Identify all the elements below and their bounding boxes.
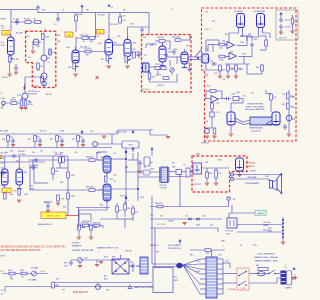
svg-text:HIGH 50: HIGH 50 — [157, 37, 164, 39]
svg-text:OUTPUT: OUTPUT — [193, 184, 202, 186]
svg-text:FX RETURN: FX RETURN — [254, 11, 266, 13]
svg-text:C4: C4 — [62, 10, 64, 12]
svg-text:HEATERS: HEATERS — [72, 244, 82, 247]
svg-text:22n: 22n — [251, 93, 254, 95]
svg-text:TR8: TR8 — [292, 119, 295, 121]
svg-text:JK5: JK5 — [233, 199, 236, 201]
svg-text:C14: C14 — [132, 49, 135, 51]
svg-text:+15V: +15V — [40, 271, 45, 273]
svg-text:HT+ 320V: HT+ 320V — [157, 224, 166, 226]
svg-text:HT-: HT- — [1, 271, 5, 273]
svg-text:R84: R84 — [60, 182, 63, 184]
svg-text:LOUDSPEAKER: LOUDSPEAKER — [245, 182, 260, 185]
svg-text:C18 22n: C18 22n — [155, 75, 162, 77]
svg-text:2M2: 2M2 — [57, 41, 60, 43]
svg-text:V6: V6 — [114, 181, 116, 183]
svg-text:R35: R35 — [254, 39, 257, 41]
svg-text:EXTERNAL: EXTERNAL — [246, 162, 256, 165]
svg-text:VIRTUAL CENTER TAP: VIRTUAL CENTER TAP — [72, 249, 94, 252]
svg-text:R105 15K: R105 15K — [81, 223, 89, 225]
svg-text:R8 10K: R8 10K — [46, 94, 53, 96]
svg-text:TR5: TR5 — [37, 70, 41, 72]
svg-text:NOTE:: NOTE: — [1, 256, 7, 258]
svg-text:TX2 8R: TX2 8R — [160, 188, 167, 190]
svg-text:22n: 22n — [135, 212, 138, 214]
svg-text:RLY1 12V: RLY1 12V — [226, 231, 234, 233]
svg-text:FX SEND: FX SEND — [234, 11, 243, 13]
svg-text:DPDT: DPDT — [226, 233, 231, 235]
svg-text:R92: R92 — [100, 205, 103, 207]
svg-text:R10: R10 — [57, 35, 60, 37]
svg-text:47u: 47u — [32, 152, 35, 154]
svg-text:R26 250K: R26 250K — [172, 37, 181, 39]
svg-text:4K7: 4K7 — [274, 97, 277, 99]
svg-text:C6: C6 — [44, 29, 46, 31]
svg-text:BIAS ADJUST: BIAS ADJUST — [38, 223, 53, 226]
svg-text:R110: R110 — [8, 270, 12, 272]
svg-text:R106 15K: R106 15K — [93, 223, 101, 225]
svg-text:R50: R50 — [207, 86, 210, 88]
svg-text:100u: 100u — [268, 228, 272, 230]
svg-text:C32 47u: C32 47u — [285, 27, 292, 29]
svg-text:1n: 1n — [152, 44, 154, 46]
svg-text:IC2b: IC2b — [236, 92, 240, 94]
svg-text:C21 1u: C21 1u — [205, 29, 211, 31]
svg-text:R83: R83 — [60, 153, 63, 155]
svg-text:LOW 50: LOW 50 — [157, 85, 164, 87]
svg-text:C17: C17 — [144, 55, 147, 57]
svg-text:PSU: PSU — [129, 145, 134, 147]
svg-text:R100: R100 — [196, 225, 200, 227]
svg-text:C26: C26 — [214, 73, 217, 75]
svg-text:HEATER SUPPLY 6.3V: HEATER SUPPLY 6.3V — [97, 247, 119, 250]
svg-text:HT4 285V: HT4 285V — [0, 131, 9, 133]
svg-text:B TOne: B TOne — [143, 89, 151, 91]
svg-text:V4a: V4a — [1, 168, 4, 170]
svg-text:R71: R71 — [28, 139, 31, 141]
svg-text:BF245: BF245 — [28, 104, 33, 106]
svg-text:R21: R21 — [123, 10, 126, 12]
svg-text:R112: R112 — [104, 257, 108, 259]
svg-text:R11 100K: R11 100K — [80, 35, 89, 37]
svg-text:D12: D12 — [185, 216, 188, 218]
svg-text:V5: V5 — [114, 153, 116, 155]
svg-text:SET HEATER BALANCE USING TR2: SET HEATER BALANCE USING TR2 — [1, 249, 42, 252]
svg-text:47u: 47u — [75, 152, 78, 154]
svg-text:C48: C48 — [125, 167, 128, 169]
svg-text:R32: R32 — [248, 34, 251, 36]
svg-text:R17: R17 — [101, 59, 104, 61]
svg-text:C28: C28 — [222, 79, 225, 81]
svg-text:R20 220K: R20 220K — [110, 24, 119, 26]
svg-text:AC2: AC2 — [104, 278, 108, 281]
svg-text:C20: C20 — [205, 49, 208, 51]
svg-text:E2: E2 — [99, 32, 101, 34]
svg-text:C8 22u: C8 22u — [2, 77, 8, 79]
svg-text:RUN ADJUST: RUN ADJUST — [73, 291, 89, 294]
svg-text:TR1 BIAS: TR1 BIAS — [28, 279, 37, 282]
svg-text:6V3: 6V3 — [56, 279, 59, 281]
svg-text:R14: R14 — [68, 67, 71, 69]
svg-text:long decay: long decay — [251, 131, 260, 133]
svg-text:C55: C55 — [217, 112, 220, 114]
svg-text:R60: R60 — [292, 97, 295, 99]
svg-text:FS1: FS1 — [256, 265, 259, 267]
svg-text:C44 22n: C44 22n — [0, 153, 7, 155]
svg-text:C45: C45 — [1, 163, 4, 165]
svg-text:C71: C71 — [183, 165, 186, 167]
svg-text:115V OPERATION: 115V OPERATION — [257, 253, 275, 256]
svg-text:IC1: IC1 — [240, 69, 243, 71]
svg-text:C62: C62 — [210, 225, 213, 227]
svg-text:TR4: TR4 — [37, 46, 41, 48]
svg-text:6.3V 3A: 6.3V 3A — [125, 250, 132, 253]
svg-text:C3: C3 — [54, 24, 56, 26]
svg-text:JK3: JK3 — [205, 162, 208, 164]
svg-text:C42 47u: C42 47u — [40, 131, 46, 133]
svg-text:C15: C15 — [143, 37, 146, 39]
svg-text:C16: C16 — [174, 49, 177, 51]
svg-text:22n: 22n — [110, 58, 113, 60]
svg-text:HT1: HT1 — [86, 10, 89, 12]
svg-text:R91: R91 — [94, 227, 97, 229]
svg-text:8 OHM: 8 OHM — [250, 171, 256, 173]
svg-text:R44: R44 — [256, 67, 259, 69]
svg-text:47u: 47u — [119, 210, 122, 212]
svg-text:BR1: BR1 — [112, 257, 116, 259]
svg-text:C50: C50 — [1, 176, 4, 178]
svg-text:R1 68K: R1 68K — [24, 19, 31, 21]
svg-text:C1 47p: C1 47p — [13, 19, 19, 21]
svg-text:100n: 100n — [206, 253, 210, 255]
svg-text:R2: R2 — [34, 19, 36, 21]
svg-text:C70: C70 — [218, 173, 221, 175]
svg-text:C54: C54 — [243, 96, 246, 98]
svg-text:C31 47u: C31 47u — [285, 20, 292, 22]
svg-text:V3b: V3b — [186, 46, 189, 48]
svg-text:C11 22n: C11 22n — [84, 48, 91, 50]
svg-text:TRANSFORMER + 6266: TRANSFORMER + 6266 — [254, 260, 278, 263]
svg-text:IC1b: IC1b — [242, 54, 246, 56]
svg-text:6.3V AC: 6.3V AC — [72, 242, 80, 245]
svg-text:D10: D10 — [150, 215, 153, 217]
svg-text:TR5 BC184: TR5 BC184 — [28, 94, 37, 96]
svg-text:R86 5K6: R86 5K6 — [86, 157, 93, 159]
svg-text:TR2: TR2 — [84, 257, 88, 259]
svg-text:P2: P2 — [144, 167, 146, 169]
svg-text:C43 100n: C43 100n — [18, 154, 25, 156]
svg-text:C5 47u: C5 47u — [120, 16, 126, 18]
svg-text:T500mA: T500mA — [228, 288, 236, 291]
svg-text:C40 47u 450V: C40 47u 450V — [115, 132, 127, 134]
svg-text:R72: R72 — [50, 139, 53, 141]
svg-text:12AX7: 12AX7 — [1, 184, 6, 187]
svg-text:F1 FC=RATED: F1 FC=RATED — [168, 244, 181, 247]
svg-text:15W: 15W — [265, 176, 269, 178]
svg-text:SET TO -12.5V: SET TO -12.5V — [47, 216, 61, 218]
svg-text:C19 22n: C19 22n — [155, 64, 161, 66]
svg-text:LANEY PH 1 B3T09E: LANEY PH 1 B3T09E — [134, 286, 154, 289]
svg-text:C80: C80 — [130, 262, 133, 264]
svg-text:R48: R48 — [205, 75, 208, 77]
svg-text:3M3: 3M3 — [90, 41, 94, 43]
svg-text:R8 470K C9 1n: R8 470K C9 1n — [28, 91, 40, 93]
svg-text:9W: 9W — [110, 179, 113, 181]
svg-text:R111: R111 — [20, 270, 24, 272]
svg-text:x2: x2 — [171, 9, 173, 11]
svg-text:TR6: TR6 — [28, 102, 31, 104]
svg-text:V4: V4 — [5, 190, 7, 192]
svg-text:V4 PHASE: V4 PHASE — [29, 164, 39, 167]
svg-text:R98: R98 — [209, 173, 212, 175]
svg-text:C49 47u: C49 47u — [120, 196, 126, 198]
svg-text:47u: 47u — [76, 66, 79, 68]
svg-text:R30: R30 — [207, 59, 210, 61]
svg-text:V4b: V4b — [24, 172, 27, 174]
svg-text:R90: R90 — [82, 227, 85, 229]
svg-text:GRN 2a: GRN 2a — [257, 213, 264, 215]
svg-text:D13: D13 — [160, 216, 163, 218]
svg-text:R78 82K: R78 82K — [18, 151, 25, 153]
svg-text:C46: C46 — [100, 157, 103, 159]
svg-text:MAINS FUSE = T500mA: MAINS FUSE = T500mA — [255, 256, 278, 259]
svg-text:C47: C47 — [44, 202, 47, 204]
svg-text:R61: R61 — [292, 107, 295, 109]
svg-text:(Accutronics 4AB3C1B): (Accutronics 4AB3C1B) — [245, 108, 265, 111]
svg-text:EL84: EL84 — [96, 153, 100, 155]
svg-text:R40: R40 — [231, 69, 234, 71]
svg-text:1N4007: 1N4007 — [168, 221, 174, 223]
svg-text:4K7: 4K7 — [282, 104, 285, 106]
svg-text:DRIVE + RECOVERY: DRIVE + RECOVERY — [246, 106, 265, 108]
svg-text:1W: 1W — [40, 151, 43, 153]
svg-text:R80: R80 — [10, 194, 13, 196]
svg-text:2K2: 2K2 — [220, 48, 223, 50]
svg-text:R77: R77 — [1, 158, 4, 160]
svg-text:C24: C24 — [210, 61, 213, 63]
svg-text:R87 5K6: R87 5K6 — [86, 187, 93, 189]
svg-text:EARTH: EARTH — [285, 286, 292, 289]
svg-text:REVERB TANK: REVERB TANK — [249, 127, 263, 130]
svg-text:HT2: HT2 — [150, 163, 153, 165]
svg-text:R31: R31 — [225, 34, 228, 36]
svg-text:SW1: SW1 — [218, 160, 222, 162]
svg-text:V1b: V1b — [67, 35, 70, 37]
svg-text:SPEAKER: SPEAKER — [246, 165, 256, 168]
svg-text:V1b 7025: V1b 7025 — [80, 47, 87, 49]
svg-text:0-115: 0-115 — [196, 261, 200, 263]
svg-text:R9: R9 — [27, 36, 29, 38]
svg-text:R5 1K5: R5 1K5 — [13, 59, 19, 61]
svg-text:6.3: 6.3 — [1, 294, 4, 296]
svg-text:V2b: V2b — [117, 36, 120, 38]
svg-text:10u: 10u — [28, 57, 31, 59]
svg-text:V1b: V1b — [66, 47, 69, 49]
svg-text:R33: R33 — [222, 41, 225, 43]
svg-text:C0: C0 — [1, 93, 3, 95]
svg-text:HT3: HT3 — [150, 130, 153, 132]
svg-text:JK2: JK2 — [205, 12, 208, 14]
svg-text:HT 300V: HT 300V — [98, 15, 106, 17]
svg-text:TP3: TP3 — [62, 290, 65, 292]
svg-text:AC1: AC1 — [104, 275, 108, 278]
svg-text:0-6.3: 0-6.3 — [196, 271, 200, 273]
svg-text:NFB 27K: NFB 27K — [155, 203, 163, 205]
svg-text:C2: C2 — [2, 28, 4, 30]
svg-text:SPRING REVERB: SPRING REVERB — [247, 104, 263, 106]
svg-text:-15V RAIL: -15V RAIL — [30, 267, 38, 270]
svg-text:R70: R70 — [2, 139, 5, 141]
svg-text:POLYSWITCH: POLYSWITCH — [168, 248, 181, 250]
svg-text:100n: 100n — [52, 52, 56, 54]
svg-text:TX1: TX1 — [218, 255, 221, 257]
svg-text:C22: C22 — [240, 36, 243, 38]
svg-text:R81: R81 — [25, 194, 28, 196]
svg-text:INTERNAL: INTERNAL — [247, 176, 256, 179]
svg-text:C9: C9 — [47, 62, 49, 64]
svg-text:MAINS TX: MAINS TX — [150, 244, 159, 247]
svg-text:C61: C61 — [265, 225, 268, 227]
svg-text:R19: R19 — [114, 43, 117, 45]
svg-text:HT2: HT2 — [42, 10, 45, 12]
svg-text:R4 470K: R4 470K — [16, 33, 23, 35]
svg-text:TR2: TR2 — [106, 290, 109, 292]
svg-text:+15V -15V: +15V -15V — [278, 38, 287, 40]
svg-text:V3a: V3a — [168, 49, 171, 51]
svg-text:R22: R22 — [131, 24, 134, 26]
svg-text:R3 1M: R3 1M — [10, 100, 16, 102]
svg-text:R73: R73 — [72, 139, 75, 141]
svg-text:R23: R23 — [133, 43, 136, 45]
svg-text:EFFECT: EFFECT — [202, 142, 211, 144]
svg-text:INPUT: INPUT — [1, 19, 8, 21]
svg-text:470p: 470p — [220, 60, 224, 62]
svg-text:C41: C41 — [90, 131, 93, 133]
svg-text:JK IN: JK IN — [1, 98, 6, 100]
svg-text:D11: D11 — [203, 216, 206, 218]
svg-text:3M3: 3M3 — [55, 285, 59, 287]
svg-text:IC2: IC2 — [217, 103, 220, 105]
